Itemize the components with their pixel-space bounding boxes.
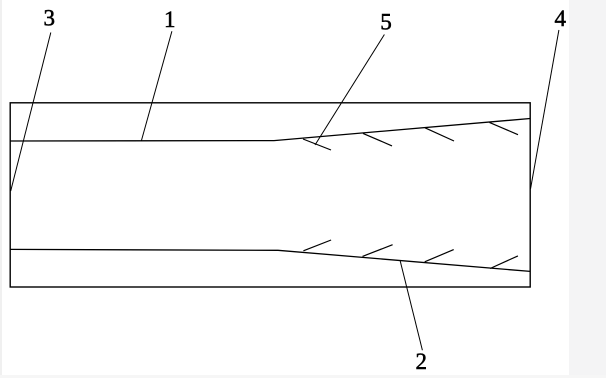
- bottom hatch tick 1: [303, 240, 331, 251]
- leader line for label 4: [531, 30, 559, 189]
- leader line for label 5: [315, 35, 384, 146]
- leader line for label 2: [400, 261, 422, 351]
- leader line for label 1: [141, 31, 172, 141]
- right gray margin strip: [569, 0, 606, 378]
- svg-text:2: 2: [415, 349, 427, 374]
- top hatch tick 1: [303, 139, 331, 150]
- outer rectangle (tube body outline): [10, 103, 530, 287]
- leader line for label 3: [11, 33, 51, 192]
- top wall line 1: [10, 119, 530, 142]
- svg-text:4: 4: [555, 6, 567, 31]
- svg-text:3: 3: [43, 6, 55, 31]
- bottom gray edge: [0, 375, 606, 378]
- top hatch tick 3: [425, 128, 454, 141]
- left gray edge: [0, 0, 2, 378]
- top hatch tick 4: [489, 122, 518, 134]
- bottom hatch tick 2: [363, 245, 393, 257]
- svg-text:5: 5: [380, 10, 392, 35]
- bottom hatch tick 4: [490, 256, 518, 269]
- svg-text:1: 1: [164, 7, 176, 32]
- bottom hatch tick 3: [425, 250, 454, 262]
- top hatch tick 2: [363, 133, 392, 146]
- bottom wall line: [10, 249, 530, 271]
